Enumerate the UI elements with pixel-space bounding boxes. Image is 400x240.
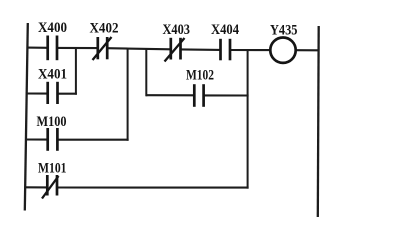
wire X401 to node A (58, 93, 77, 95)
contact M101 (NC) (42, 175, 59, 199)
wire node C vertical (M102 branch left) (145, 49, 147, 97)
svg-text:X402: X402 (90, 21, 119, 37)
contact X403 (NC) (165, 38, 185, 62)
contact M100 (NO) (48, 128, 58, 151)
wire M102 to node D (204, 94, 249, 96)
wire M100 to node B (57, 139, 128, 141)
svg-text:X401: X401 (38, 67, 67, 83)
contact X404 (NO) (221, 39, 231, 61)
wire X400 to X402 (57, 47, 98, 49)
coil Y435 (270, 38, 295, 63)
wire M101 to node D (57, 186, 249, 188)
svg-text:X404: X404 (211, 22, 239, 38)
wire X404 to coil Y435 (230, 49, 270, 51)
contact X400 (NO) (48, 36, 57, 61)
wire rail to M101 (25, 186, 48, 188)
svg-text:X403: X403 (163, 22, 191, 38)
svg-text:X400: X400 (38, 20, 67, 36)
wire node B vertical (M100 branch join) (127, 48, 129, 140)
contact X402 (NC) (93, 37, 112, 60)
contact M102 (NO) (194, 84, 203, 107)
wire node A vertical (X401 branch join) (75, 48, 77, 95)
left power rail (25, 23, 28, 211)
wire rail to X400 (27, 47, 48, 49)
wire node C to M102 (146, 94, 194, 96)
contact X401 (NO) (48, 82, 58, 104)
svg-text:Y435: Y435 (270, 23, 298, 39)
wire node D vertical (M102/M101 branch join) (247, 50, 249, 189)
svg-text:M101: M101 (38, 161, 67, 177)
wire X402 to X403 (107, 48, 171, 49)
wire rail to M100 (25, 138, 48, 140)
right power rail (317, 26, 320, 217)
svg-text:M100: M100 (37, 114, 67, 130)
wire X403 to X404 (181, 48, 221, 51)
svg-text:M102: M102 (186, 68, 214, 84)
wire coil Y435 to right rail (296, 49, 318, 51)
wire rail to X401 (26, 92, 48, 94)
